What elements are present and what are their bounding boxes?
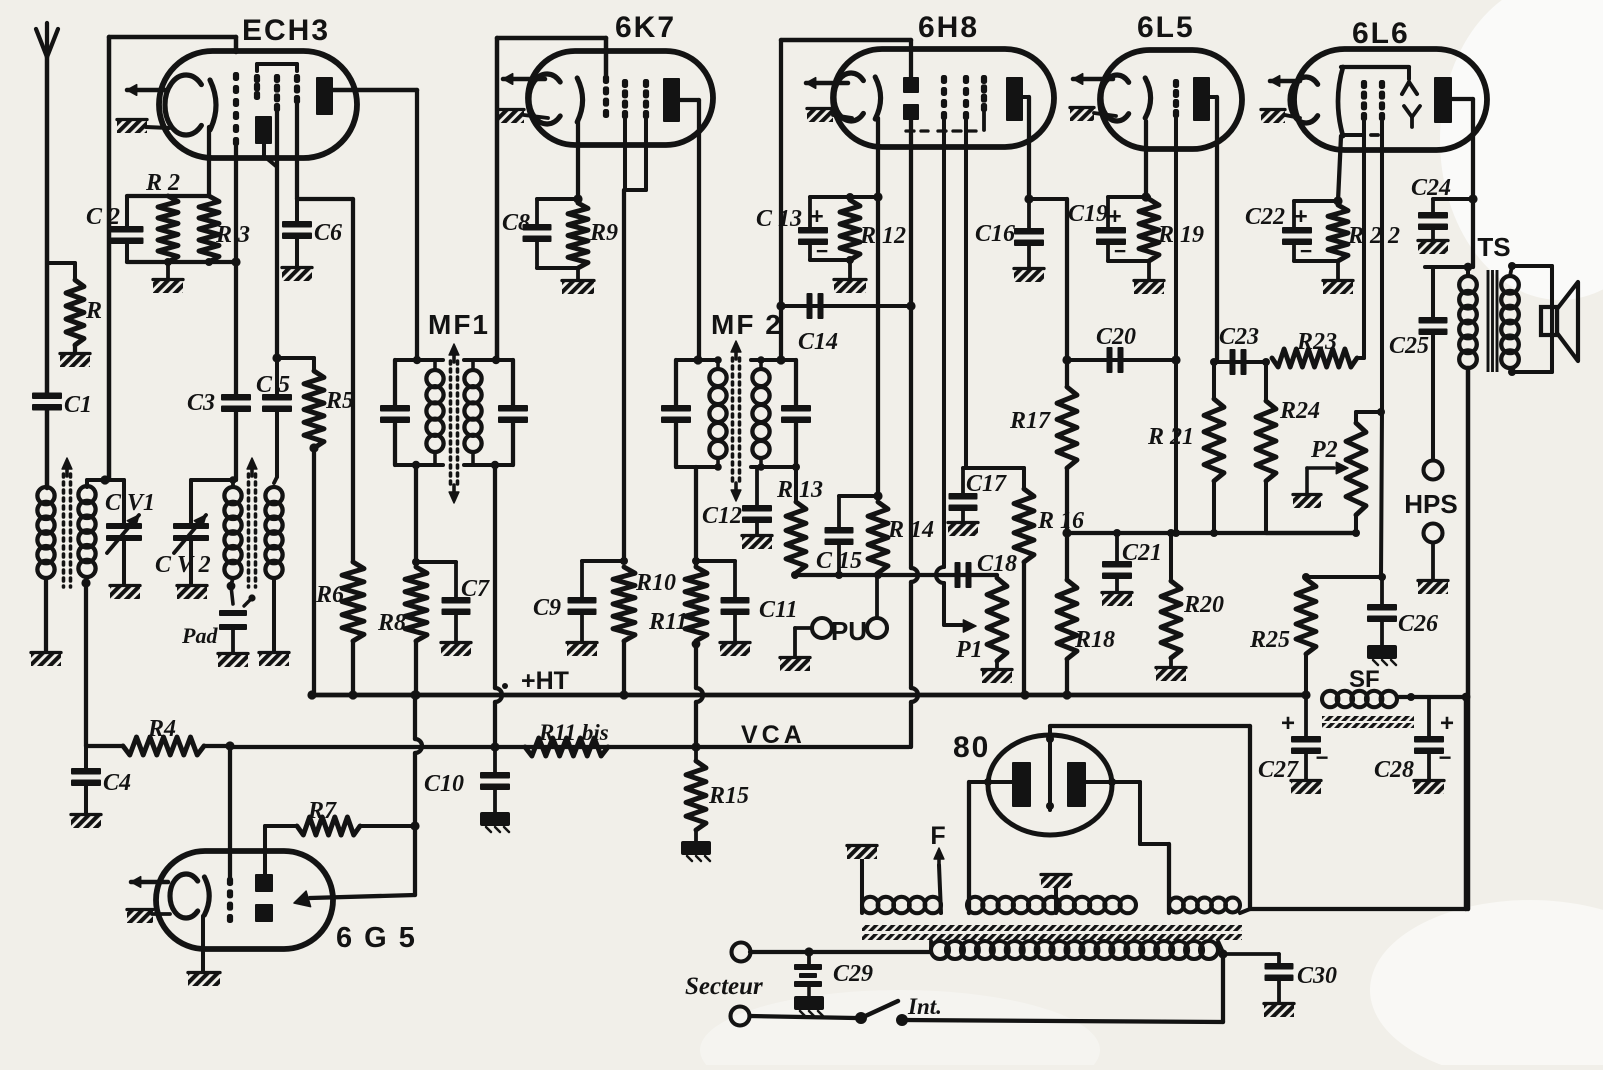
svg-text:C V1: C V1 <box>105 490 155 516</box>
svg-text:6K7: 6K7 <box>615 11 676 44</box>
svg-text:F: F <box>930 822 945 850</box>
svg-text:C4: C4 <box>103 770 131 796</box>
svg-text:C20: C20 <box>1096 324 1136 350</box>
svg-text:R9: R9 <box>589 220 618 246</box>
svg-text:6L6: 6L6 <box>1352 17 1410 50</box>
svg-text:R8: R8 <box>377 610 406 636</box>
svg-text:R25: R25 <box>1249 627 1290 653</box>
svg-text:C12: C12 <box>702 503 742 529</box>
svg-text:80: 80 <box>953 731 990 764</box>
svg-text:−: − <box>1439 745 1452 770</box>
svg-text:R15: R15 <box>708 783 749 809</box>
svg-text:MF 2: MF 2 <box>711 309 783 340</box>
svg-text:C11: C11 <box>759 597 798 623</box>
svg-text:C14: C14 <box>798 329 838 355</box>
svg-text:C29: C29 <box>833 961 873 987</box>
svg-text:R: R <box>85 298 102 324</box>
svg-text:C7: C7 <box>461 576 490 602</box>
svg-text:R20: R20 <box>1183 592 1224 618</box>
svg-text:R11 bis: R11 bis <box>538 720 609 745</box>
svg-text:R 2 2: R 2 2 <box>1347 223 1400 249</box>
svg-text:P2: P2 <box>1310 437 1338 463</box>
svg-text:C1: C1 <box>64 392 92 418</box>
svg-text:R4: R4 <box>147 716 176 742</box>
svg-text:Int.: Int. <box>907 994 942 1019</box>
svg-text:HPS: HPS <box>1404 489 1457 519</box>
svg-text:R 14: R 14 <box>887 517 934 543</box>
svg-text:C 13: C 13 <box>756 206 802 232</box>
svg-text:C22: C22 <box>1245 204 1285 230</box>
svg-text:C27: C27 <box>1258 757 1299 783</box>
svg-text:C 5: C 5 <box>256 372 290 398</box>
svg-text:C24: C24 <box>1411 175 1451 201</box>
svg-text:R17: R17 <box>1009 408 1051 434</box>
svg-text:R5: R5 <box>325 388 354 414</box>
svg-text:R 3: R 3 <box>215 222 250 248</box>
svg-text:R23: R23 <box>1296 329 1337 355</box>
svg-text:Pad: Pad <box>181 623 218 648</box>
svg-text:MF1: MF1 <box>428 309 490 340</box>
svg-text:TS: TS <box>1477 232 1510 262</box>
svg-text:R24: R24 <box>1279 398 1320 424</box>
svg-text:R10: R10 <box>635 570 676 596</box>
svg-text:R 16: R 16 <box>1037 508 1084 534</box>
svg-text:VCA: VCA <box>741 721 806 749</box>
svg-text:+: + <box>1108 203 1121 229</box>
svg-text:C10: C10 <box>424 771 464 797</box>
svg-text:C17: C17 <box>966 471 1007 497</box>
svg-text:6H8: 6H8 <box>918 11 979 44</box>
svg-text:C21: C21 <box>1122 540 1162 566</box>
svg-text:R 19: R 19 <box>1157 222 1204 248</box>
svg-text:C3: C3 <box>187 390 215 416</box>
svg-text:R11: R11 <box>648 609 688 635</box>
svg-text:C6: C6 <box>314 220 342 246</box>
svg-text:C8: C8 <box>502 210 530 236</box>
svg-text:C V 2: C V 2 <box>155 552 211 578</box>
svg-text:+: + <box>1281 710 1295 737</box>
svg-text:PU: PU <box>831 616 867 646</box>
svg-text:C30: C30 <box>1297 963 1337 989</box>
svg-text:P1: P1 <box>955 637 983 663</box>
svg-text:6 G 5: 6 G 5 <box>336 922 417 954</box>
svg-text:+: + <box>1294 203 1307 229</box>
svg-text:R 13: R 13 <box>776 477 823 503</box>
svg-text:6L5: 6L5 <box>1137 11 1195 44</box>
svg-text:SF: SF <box>1349 666 1380 693</box>
svg-text:Secteur: Secteur <box>685 973 763 1000</box>
svg-text:C9: C9 <box>533 595 561 621</box>
svg-text:R 21: R 21 <box>1147 424 1194 450</box>
svg-text:R7: R7 <box>307 798 337 824</box>
svg-text:C26: C26 <box>1398 611 1438 637</box>
svg-text:ECH3: ECH3 <box>242 14 330 47</box>
svg-text:C 15: C 15 <box>816 548 862 574</box>
svg-text:+: + <box>1440 710 1454 737</box>
svg-text:C19: C19 <box>1068 201 1108 227</box>
svg-text:R 12: R 12 <box>859 223 906 249</box>
svg-text:C16: C16 <box>975 221 1015 247</box>
svg-text:−: − <box>1316 745 1329 770</box>
svg-text:C 2: C 2 <box>86 204 120 230</box>
svg-text:C25: C25 <box>1389 333 1429 359</box>
svg-text:C23: C23 <box>1219 324 1259 350</box>
svg-text:+HT: +HT <box>521 667 569 695</box>
svg-text:+: + <box>810 203 823 229</box>
svg-text:R18: R18 <box>1074 627 1115 653</box>
svg-text:R6: R6 <box>315 582 344 608</box>
svg-text:R 2: R 2 <box>145 170 180 196</box>
svg-text:C28: C28 <box>1374 757 1414 783</box>
